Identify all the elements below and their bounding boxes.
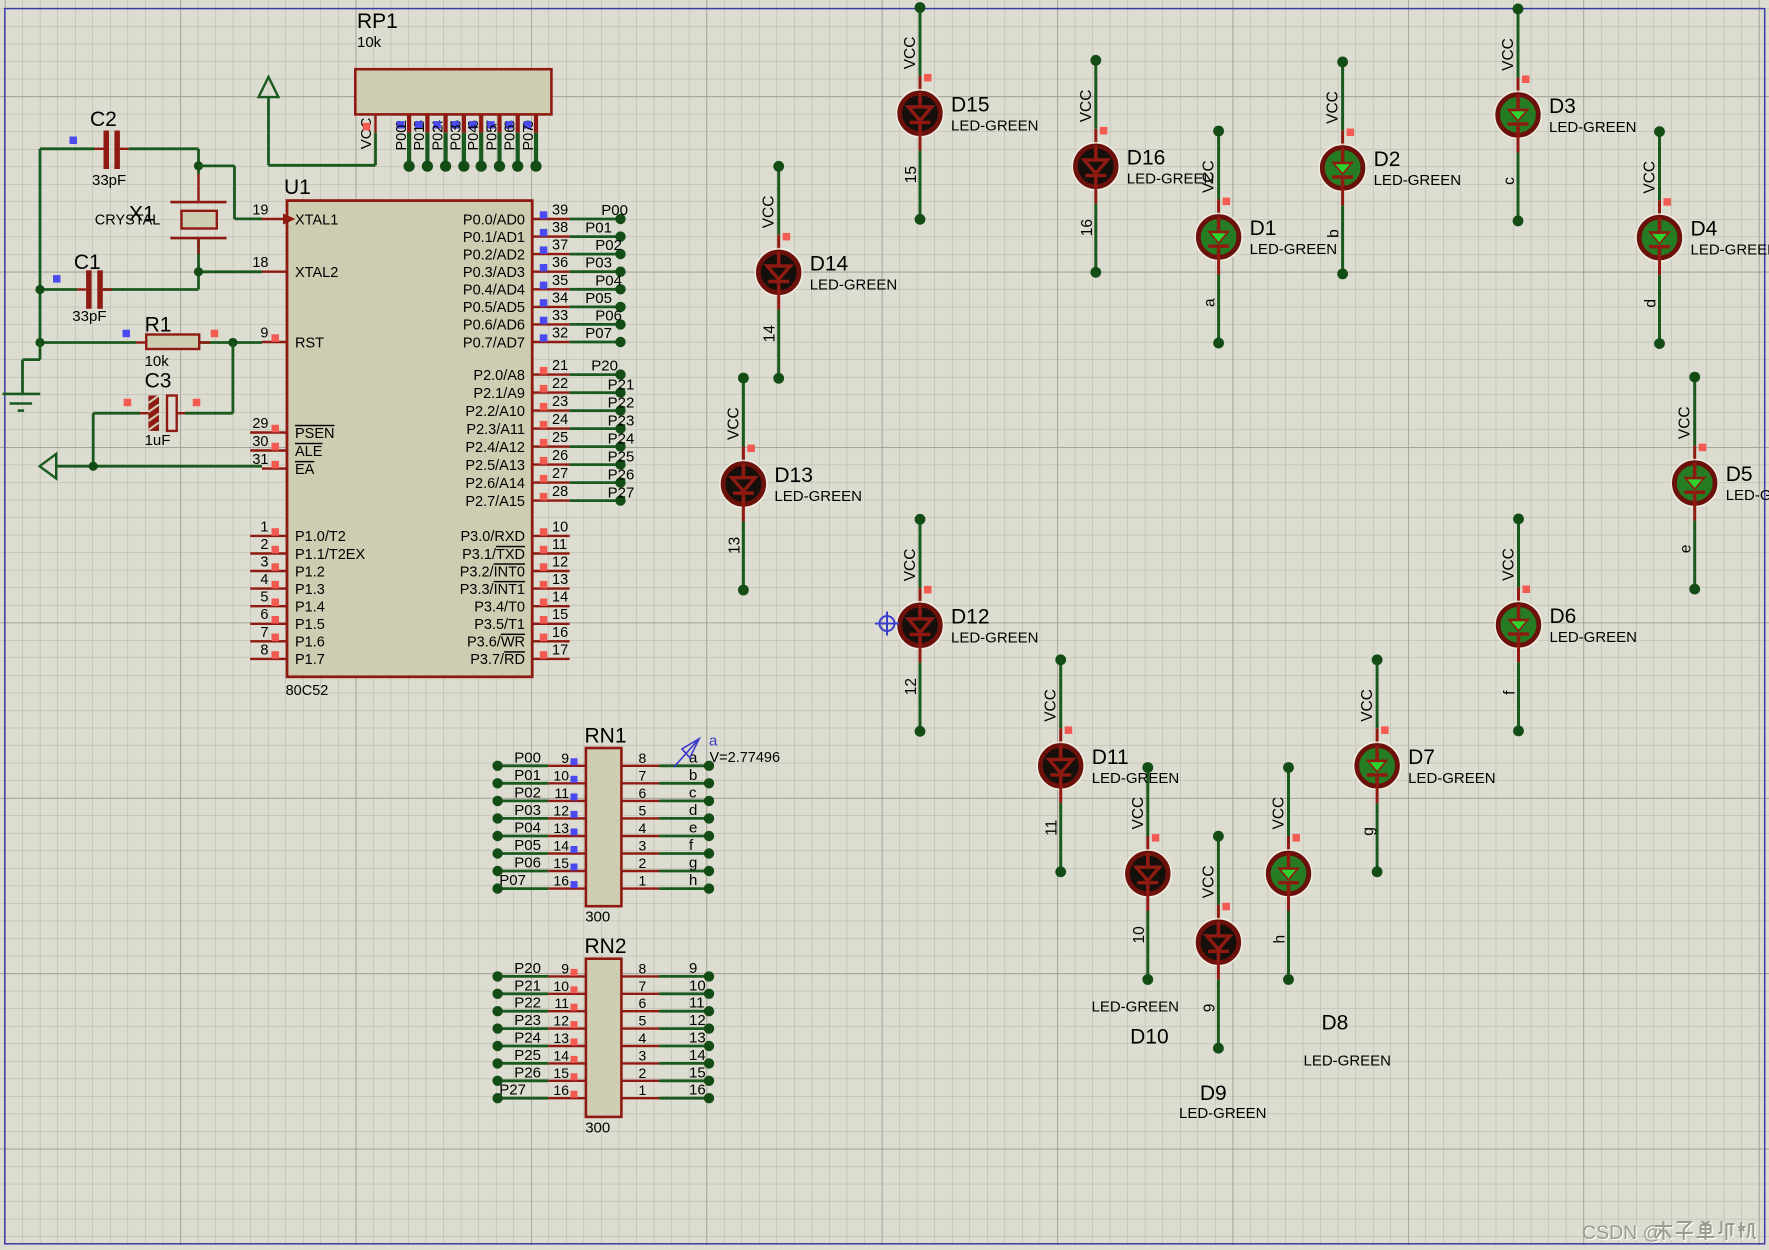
svg-text:P03: P03 — [514, 802, 541, 819]
svg-text:D2: D2 — [1374, 148, 1401, 171]
svg-text:1: 1 — [639, 1082, 647, 1098]
svg-text:P06: P06 — [595, 307, 622, 324]
wire VCC to D16 — [1094, 60, 1097, 148]
U1 pin 8 P1.7 — [250, 642, 325, 668]
RN1 pin 13 net P04 — [492, 820, 586, 842]
LED D11 LED-GREEN — [1037, 743, 1179, 790]
RN2 pin 7 net 10 — [621, 977, 714, 999]
marker — [783, 233, 791, 241]
U1 pin 11 P3.1/TXD — [462, 537, 569, 563]
power VCC node D13 — [725, 373, 748, 440]
svg-text:P1.2: P1.2 — [295, 564, 325, 580]
marker — [1100, 127, 1108, 134]
crystal X1 — [95, 174, 227, 254]
wire — [199, 166, 263, 219]
RP1 pin 2 net P00 — [394, 114, 415, 171]
svg-text:P02: P02 — [595, 237, 622, 254]
resistor pack RP1 — [355, 10, 551, 149]
svg-text:P2.6/A14: P2.6/A14 — [465, 476, 525, 492]
svg-text:P00: P00 — [394, 125, 410, 151]
svg-text:D13: D13 — [774, 464, 813, 487]
U1 pin 7 P1.6 — [250, 625, 325, 651]
LED D9 LED-GREEN — [1179, 919, 1267, 1122]
wire net P25 — [570, 459, 626, 469]
svg-text:P2.0/A8: P2.0/A8 — [473, 368, 525, 384]
svg-text:g: g — [689, 855, 697, 872]
node — [35, 285, 44, 294]
marker — [747, 445, 755, 453]
wire net P20 — [570, 369, 626, 379]
wire VCC to D4 — [1658, 132, 1661, 220]
node — [89, 462, 98, 471]
svg-text:VCC: VCC — [902, 37, 919, 70]
U1 pin 25 P2.4/A12 — [465, 430, 569, 456]
RN2 pin 15 net P26 — [492, 1064, 586, 1086]
svg-text:3: 3 — [639, 1047, 647, 1063]
capacitor C2 — [90, 108, 129, 189]
svg-text:P21: P21 — [608, 377, 635, 394]
U1 pin 13 P3.3/INT1 — [460, 572, 570, 598]
resistor network RN2 — [585, 935, 627, 1136]
LED D10 LED-GREEN — [1092, 850, 1180, 1048]
marker — [1347, 129, 1355, 137]
marker — [924, 74, 932, 82]
svg-text:80C52: 80C52 — [286, 683, 329, 699]
svg-text:18: 18 — [252, 255, 268, 271]
power VCC node D7 — [1359, 654, 1382, 721]
U1 pin 33 P0.6/AD6 — [463, 308, 570, 334]
svg-text:11: 11 — [554, 995, 569, 1011]
svg-text:VCC: VCC — [1271, 797, 1288, 830]
RN2 pin 5 net 12 — [621, 1012, 714, 1034]
power VCC node D1 — [1201, 126, 1224, 193]
wire VCC to D11 — [1059, 660, 1062, 748]
svg-text:6: 6 — [260, 607, 268, 623]
svg-text:LED-GREEN: LED-GREEN — [1092, 999, 1180, 1016]
marker — [1699, 444, 1707, 452]
svg-text:13: 13 — [726, 537, 743, 554]
svg-text:38: 38 — [552, 220, 568, 236]
svg-text:X1: X1 — [129, 203, 155, 226]
power VCC node D15 — [902, 2, 925, 69]
svg-text:10k: 10k — [145, 353, 170, 370]
svg-text:P0.7/AD7: P0.7/AD7 — [463, 335, 525, 351]
U1 pin 24 P2.3/A11 — [466, 412, 569, 438]
power VCC node D4 — [1642, 126, 1665, 193]
svg-text:P1.1/T2EX: P1.1/T2EX — [295, 547, 365, 563]
RN1 pin 16 net P07 — [492, 872, 586, 894]
wire D9 to net 9 — [1213, 961, 1224, 1054]
capacitor C3 — [140, 370, 185, 450]
svg-text:23: 23 — [552, 394, 568, 410]
svg-text:g: g — [1360, 827, 1377, 836]
svg-text:30: 30 — [252, 434, 268, 450]
svg-text:9: 9 — [689, 960, 697, 977]
svg-text:3: 3 — [639, 838, 647, 854]
svg-text:VCC: VCC — [358, 117, 375, 149]
svg-text:21: 21 — [552, 358, 568, 374]
svg-text:P0.3/AD3: P0.3/AD3 — [463, 265, 525, 281]
svg-text:D1: D1 — [1250, 217, 1277, 240]
wire net P04 — [570, 284, 626, 294]
svg-text:10: 10 — [552, 519, 568, 535]
marker — [1065, 726, 1073, 734]
svg-text:P04: P04 — [595, 272, 622, 289]
svg-text:P06: P06 — [503, 125, 519, 151]
svg-text:8: 8 — [260, 642, 268, 658]
node — [35, 338, 44, 347]
RN2 pin 3 net 14 — [621, 1047, 714, 1069]
wire net P26 — [570, 477, 626, 487]
svg-text:P07: P07 — [521, 125, 537, 151]
svg-text:P20: P20 — [591, 358, 618, 375]
U1 pin 38 P0.1/AD1 — [463, 220, 570, 246]
svg-text:31: 31 — [252, 452, 268, 468]
svg-text:33pF: 33pF — [72, 308, 106, 325]
svg-text:PSEN: PSEN — [295, 426, 335, 442]
svg-text:LED-GREEN: LED-GREEN — [1304, 1053, 1392, 1070]
U1 pin 39 P0.0/AD0 — [463, 203, 570, 229]
svg-text:LED-GREEN: LED-GREEN — [1374, 172, 1462, 189]
wire VCC to D1 — [1217, 131, 1220, 219]
svg-text:e: e — [1678, 544, 1695, 553]
svg-text:V=2.77496: V=2.77496 — [710, 750, 781, 766]
wire D5 to net e — [1689, 501, 1700, 594]
svg-text:P00: P00 — [514, 749, 541, 766]
svg-text:6: 6 — [639, 995, 647, 1011]
svg-text:P02: P02 — [514, 784, 541, 801]
svg-text:P23: P23 — [514, 1012, 541, 1029]
svg-text:P26: P26 — [514, 1064, 541, 1081]
wire net P05 — [570, 302, 626, 312]
svg-text:c: c — [689, 784, 697, 801]
LED D5 LED-GREEN — [1671, 460, 1769, 507]
U1 pin 4 P1.3 — [250, 572, 325, 598]
LED D7 LED-GREEN — [1354, 743, 1496, 790]
wire D15 to net 15 — [915, 132, 926, 225]
svg-text:VCC: VCC — [725, 407, 742, 440]
svg-text:LED-GREEN: LED-GREEN — [1691, 242, 1769, 259]
U1 pin 32 P0.7/AD7 — [463, 326, 570, 352]
svg-text:P3.1/TXD: P3.1/TXD — [462, 547, 525, 563]
svg-text:P0.2/AD2: P0.2/AD2 — [463, 247, 525, 263]
RN1 pin 14 net P05 — [492, 837, 586, 859]
svg-text:7: 7 — [639, 978, 647, 994]
svg-text:35: 35 — [552, 273, 568, 289]
svg-text:D6: D6 — [1550, 605, 1577, 628]
node — [228, 338, 237, 347]
wire net P06 — [570, 319, 626, 329]
svg-text:4: 4 — [639, 820, 647, 836]
svg-text:1: 1 — [639, 873, 647, 889]
wire VCC to D15 — [919, 8, 922, 96]
svg-text:16: 16 — [553, 1082, 569, 1098]
wire net P00 — [570, 214, 626, 224]
svg-text:2: 2 — [260, 537, 268, 553]
marker — [124, 399, 132, 407]
svg-text:P22: P22 — [514, 995, 541, 1012]
svg-text:D5: D5 — [1726, 463, 1753, 486]
svg-text:P25: P25 — [514, 1047, 541, 1064]
svg-text:300: 300 — [585, 909, 610, 926]
svg-text:16: 16 — [689, 1082, 706, 1099]
power VCC node D9 — [1200, 831, 1223, 898]
LED D1 LED-GREEN — [1195, 214, 1337, 261]
svg-text:6: 6 — [639, 785, 647, 801]
resistor R1 — [136, 314, 210, 371]
U1 pin 14 P3.4/T0 — [474, 590, 569, 616]
svg-text:P01: P01 — [412, 125, 428, 151]
svg-text:14: 14 — [762, 325, 779, 343]
svg-text:34: 34 — [552, 290, 568, 306]
U1 pin 12 P3.2/INT0 — [460, 555, 570, 581]
svg-text:P26: P26 — [608, 467, 635, 484]
U1 pin 15 P3.5/T1 — [474, 607, 569, 633]
wire VCC to D10 — [1146, 768, 1149, 856]
marker — [924, 586, 932, 594]
svg-text:2: 2 — [639, 855, 647, 871]
wire D11 to net 11 — [1055, 784, 1066, 877]
svg-text:10: 10 — [553, 978, 569, 994]
wire D1 to net a — [1213, 255, 1224, 348]
svg-text:P20: P20 — [514, 960, 541, 977]
power VCC node D14 — [761, 161, 784, 228]
wire — [40, 341, 262, 344]
svg-text:h: h — [689, 872, 697, 889]
svg-text:b: b — [1326, 229, 1343, 238]
power VCC node D10 — [1130, 762, 1153, 829]
U1 pin 18 XTAL2 — [252, 255, 338, 281]
RN2 pin 14 net P25 — [492, 1047, 586, 1069]
svg-text:P3.7/RD: P3.7/RD — [470, 652, 525, 668]
RN1 pin 11 net P02 — [492, 784, 586, 806]
svg-text:14: 14 — [553, 1047, 569, 1063]
marker — [1664, 198, 1672, 206]
svg-text:XTAL2: XTAL2 — [295, 265, 338, 281]
svg-text:19: 19 — [252, 203, 268, 219]
svg-text:LED-GREEN: LED-GREEN — [1549, 119, 1637, 136]
wire net P23 — [570, 423, 626, 433]
power VCC arrow — [259, 77, 376, 165]
wire VCC to D12 — [919, 519, 922, 607]
svg-text:33: 33 — [552, 308, 568, 324]
svg-text:P1.4: P1.4 — [295, 600, 325, 616]
wire VCC to D5 — [1693, 377, 1696, 465]
LED D6 LED-GREEN — [1495, 602, 1637, 649]
wire VCC to D3 — [1517, 9, 1520, 97]
RN2 pin 4 net 13 — [621, 1030, 714, 1052]
wire D13 to net 13 — [738, 502, 749, 595]
svg-text:a: a — [709, 733, 718, 750]
svg-text:10: 10 — [1131, 926, 1148, 944]
svg-text:P2.3/A11: P2.3/A11 — [466, 422, 525, 438]
U1 pin 10 P3.0/RXD — [461, 519, 570, 545]
U1 pin 1 P1.0/T2 — [250, 519, 346, 545]
svg-text:14: 14 — [553, 838, 569, 854]
power VCC node D3 — [1500, 3, 1523, 70]
svg-text:P07: P07 — [585, 325, 612, 342]
svg-text:10: 10 — [689, 977, 706, 994]
U1 pin 21 P2.0/A8 — [473, 358, 569, 384]
svg-text:1: 1 — [260, 519, 268, 535]
svg-text:15: 15 — [553, 1065, 569, 1081]
wire D7 to net g — [1372, 784, 1383, 877]
svg-text:P3.3/INT1: P3.3/INT1 — [460, 582, 525, 598]
svg-text:C2: C2 — [90, 108, 117, 131]
LED D15 LED-GREEN — [897, 90, 1039, 137]
U1 pin 34 P0.5/AD5 — [463, 290, 570, 316]
U1 pin 27 P2.6/A14 — [465, 466, 569, 492]
svg-text:P03: P03 — [585, 255, 612, 272]
svg-text:R1: R1 — [145, 314, 172, 337]
voltage probe a — [674, 733, 780, 768]
RN1 pin 4 net e — [621, 820, 714, 842]
svg-text:VCC: VCC — [1642, 161, 1659, 194]
svg-text:D7: D7 — [1408, 746, 1435, 769]
svg-text:16: 16 — [1079, 219, 1096, 236]
wire net P03 — [570, 267, 626, 277]
marker — [1381, 726, 1389, 734]
svg-text:P0.6/AD6: P0.6/AD6 — [463, 318, 525, 334]
watermark CSDN — [1582, 1221, 1757, 1245]
svg-text:LED-GREEN: LED-GREEN — [1408, 770, 1496, 787]
svg-text:10: 10 — [553, 767, 569, 783]
svg-text:P07: P07 — [499, 872, 526, 889]
svg-text:2: 2 — [639, 1065, 647, 1081]
svg-text:39: 39 — [552, 203, 568, 219]
svg-text:P1.0/T2: P1.0/T2 — [295, 529, 346, 545]
svg-text:28: 28 — [552, 484, 568, 500]
svg-text:15: 15 — [552, 607, 568, 623]
svg-text:RN1: RN1 — [585, 725, 627, 748]
U1 pin 26 P2.5/A13 — [465, 448, 569, 474]
svg-text:26: 26 — [552, 448, 568, 464]
RN2 pin 1 net 16 — [621, 1082, 714, 1104]
svg-text:P3.6/WR: P3.6/WR — [467, 635, 525, 651]
svg-text:13: 13 — [689, 1030, 706, 1047]
marker — [1223, 198, 1231, 206]
svg-text:5: 5 — [639, 802, 647, 818]
svg-text:P27: P27 — [499, 1082, 526, 1099]
RN2 pin 6 net 11 — [621, 995, 714, 1017]
U1 pin 5 P1.4 — [250, 590, 325, 616]
svg-text:11: 11 — [689, 995, 705, 1012]
LED D8 LED-GREEN — [1265, 850, 1391, 1069]
svg-text:300: 300 — [585, 1119, 610, 1136]
svg-text:LED-GREEN: LED-GREEN — [951, 629, 1039, 646]
U1 pin 19 XTAL1 — [252, 203, 338, 229]
svg-text:RP1: RP1 — [357, 10, 398, 33]
svg-text:P2.1/A9: P2.1/A9 — [473, 386, 525, 402]
svg-text:11: 11 — [1044, 820, 1061, 836]
RN1 pin 8 net a — [621, 749, 714, 771]
RP1 pin 6 net P04 — [466, 114, 487, 171]
svg-text:VCC: VCC — [1325, 91, 1342, 124]
svg-text:XTAL1: XTAL1 — [295, 212, 338, 228]
U1 pin 16 P3.6/WR — [467, 625, 570, 651]
svg-text:24: 24 — [552, 412, 568, 428]
svg-text:P3.4/T0: P3.4/T0 — [474, 600, 525, 616]
wire net P22 — [570, 405, 626, 415]
node — [194, 267, 203, 276]
RN1 pin 5 net d — [621, 802, 714, 824]
svg-text:P01: P01 — [585, 220, 612, 237]
LED D2 LED-GREEN — [1319, 145, 1461, 192]
IC U1 80C52 — [284, 176, 532, 699]
RP1 pin 5 net P03 — [449, 114, 470, 171]
marker — [1222, 903, 1230, 911]
marker — [70, 137, 78, 145]
wire D6 to net f — [1513, 643, 1524, 736]
RN2 pin 10 net P21 — [492, 977, 586, 999]
svg-text:16: 16 — [552, 625, 568, 641]
svg-text:1uF: 1uF — [145, 432, 171, 449]
RN2 pin 9 net P20 — [492, 960, 586, 982]
RN1 pin 7 net b — [621, 767, 714, 789]
svg-text:4: 4 — [639, 1030, 647, 1046]
wire — [40, 238, 262, 290]
svg-text:9: 9 — [1201, 1004, 1218, 1013]
svg-text:P21: P21 — [514, 977, 541, 994]
wire D16 to net 16 — [1090, 185, 1101, 278]
svg-text:P0.1/AD1: P0.1/AD1 — [463, 230, 525, 246]
U1 pin 9 RST — [260, 326, 324, 352]
svg-text:10k: 10k — [357, 34, 382, 51]
svg-text:P1.3: P1.3 — [295, 582, 325, 598]
LED D13 LED-GREEN — [720, 461, 862, 508]
wire net P07 — [570, 337, 626, 347]
svg-text:27: 27 — [552, 466, 568, 482]
svg-text:P27: P27 — [608, 485, 635, 502]
svg-text:LED-GREEN: LED-GREEN — [810, 276, 898, 293]
svg-text:P3.2/INT0: P3.2/INT0 — [460, 564, 525, 580]
wire VCC to D6 — [1517, 519, 1520, 607]
svg-text:d: d — [689, 802, 697, 819]
svg-text:LED-GREEN: LED-GREEN — [1179, 1105, 1267, 1122]
svg-text:LED-GREEN: LED-GREEN — [1250, 241, 1338, 258]
RN1 pin 1 net h — [621, 872, 714, 894]
marker — [211, 330, 219, 338]
svg-text:P24: P24 — [514, 1030, 541, 1047]
svg-text:37: 37 — [552, 238, 568, 254]
LED D4 LED-GREEN — [1636, 214, 1769, 261]
svg-text:C3: C3 — [145, 370, 172, 393]
RN2 pin 12 net P23 — [492, 1012, 586, 1034]
wire — [93, 343, 233, 467]
wire — [40, 149, 199, 343]
U1 pin 35 P0.4/AD4 — [463, 273, 570, 299]
wire VCC to D8 — [1287, 768, 1290, 856]
LED D3 LED-GREEN — [1495, 92, 1637, 139]
U1 pin 2 P1.1/T2EX — [250, 537, 365, 563]
svg-text:22: 22 — [552, 376, 568, 392]
RP1 pin 7 net P05 — [484, 114, 505, 171]
resistor network RN1 — [585, 725, 627, 926]
RP1 pin 8 net P06 — [503, 114, 524, 171]
power VCC node D16 — [1078, 55, 1101, 122]
svg-text:D3: D3 — [1549, 95, 1576, 118]
svg-text:P01: P01 — [514, 767, 541, 784]
U1 pin 17 P3.7/RD — [470, 642, 569, 668]
svg-text:17: 17 — [552, 642, 568, 658]
wire D8 to net h — [1283, 892, 1294, 985]
power VCC node D6 — [1501, 514, 1524, 581]
svg-text:13: 13 — [553, 1030, 569, 1046]
wire — [23, 343, 41, 394]
wire net P01 — [570, 231, 626, 241]
wire D3 to net c — [1513, 133, 1524, 226]
ground arrow — [40, 454, 57, 479]
